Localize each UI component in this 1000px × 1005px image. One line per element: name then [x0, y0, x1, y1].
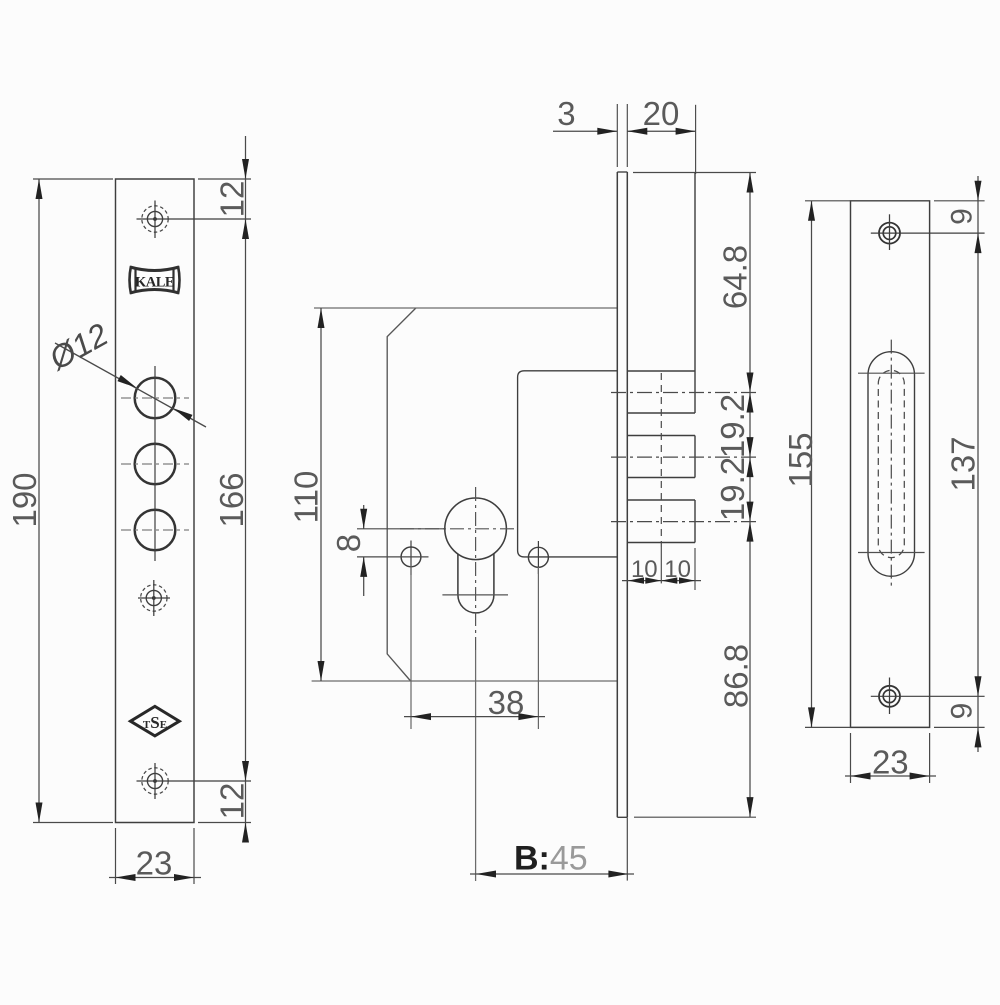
dims 10 10	[694, 548, 696, 590]
svg-text:137: 137	[945, 436, 982, 491]
svg-text:KALE: KALE	[135, 275, 174, 291]
svg-text:23: 23	[136, 845, 173, 882]
case bottom edge / ext 110	[312, 680, 618, 682]
ext	[616, 104, 618, 167]
cyl horiz centerline	[400, 528, 518, 530]
svg-text:19.2: 19.2	[714, 457, 751, 521]
faceplate side view	[616, 172, 618, 817]
svg-text:166: 166	[213, 472, 250, 527]
euro profile cylinder hole	[445, 498, 507, 560]
cyl vert centerline	[475, 487, 477, 650]
ext 38 left	[410, 566, 412, 729]
svg-text:B:45: B:45	[514, 840, 588, 878]
svg-text:190: 190	[6, 472, 43, 527]
svg-text:10: 10	[664, 556, 691, 583]
svg-text:3: 3	[557, 95, 575, 132]
svg-text:9: 9	[946, 208, 979, 225]
right fixing hole	[528, 547, 548, 567]
bolt 3	[627, 499, 695, 501]
dim8 ref top	[357, 528, 445, 530]
ext right B45	[626, 818, 628, 881]
dim column right: 64.8,19.2,19.2,86.8	[749, 173, 751, 818]
strike plate outline	[851, 201, 930, 728]
svg-text:86.8: 86.8	[718, 644, 755, 708]
center/ext line	[871, 232, 985, 234]
middle screw hole	[141, 585, 167, 611]
faceplate outline	[116, 179, 195, 823]
ext top	[33, 178, 113, 180]
dim8 ref bottom	[357, 556, 429, 558]
horiz centerline	[121, 397, 189, 399]
svg-text:20: 20	[643, 95, 680, 132]
svg-text:155: 155	[782, 432, 819, 487]
svg-text:38: 38	[488, 684, 525, 721]
svg-text:19.2: 19.2	[714, 394, 751, 458]
svg-text:110: 110	[288, 471, 325, 524]
bolt centerlines	[660, 373, 662, 547]
ext bottom	[33, 822, 113, 824]
KALE logo	[130, 266, 180, 294]
latch slot outer	[868, 352, 915, 577]
svg-text:8: 8	[330, 534, 367, 552]
dim 23 strike	[850, 733, 852, 783]
slot upper tick	[858, 372, 925, 374]
dim 38	[404, 716, 545, 718]
slot vert centerline	[890, 340, 892, 586]
ext	[626, 104, 628, 167]
bottom ext	[634, 816, 756, 818]
ext	[805, 726, 851, 728]
inner case profile	[518, 371, 618, 557]
latch slot inner dashed	[878, 370, 904, 557]
bolt housing top edge	[633, 172, 756, 174]
ext top	[934, 200, 985, 202]
svg-text:10: 10	[631, 556, 658, 583]
bolt 2	[627, 435, 695, 437]
right edge top block+bolt1	[694, 173, 696, 414]
center/ext line of top hole	[137, 218, 252, 220]
ext 822	[198, 822, 251, 824]
case top edge / ext 110	[314, 307, 617, 309]
slot lower tick	[858, 552, 925, 554]
dim 23 bottom left view	[115, 828, 117, 884]
horiz centerline	[121, 463, 189, 465]
three deadbolt holes Ø12	[135, 378, 176, 419]
ext	[695, 105, 697, 174]
vertical centerline of big holes	[154, 366, 156, 561]
dim 110	[320, 308, 322, 681]
svg-text:12: 12	[214, 181, 251, 218]
ext bottom	[934, 726, 985, 728]
bolt 1	[627, 370, 695, 372]
svg-text:64.8: 64.8	[717, 245, 754, 309]
ext	[805, 200, 851, 202]
strike top screw hole	[879, 223, 900, 244]
cyl centerline ext to B45	[475, 650, 477, 881]
left fixing hole	[401, 547, 421, 567]
strike bottom screw hole	[879, 686, 900, 707]
case body left outline	[387, 308, 416, 681]
ext 38 right	[537, 567, 539, 729]
center/ext line bottom hole	[137, 780, 252, 782]
svg-text:9: 9	[946, 703, 979, 720]
ext 179	[198, 178, 251, 180]
dim 8	[363, 505, 365, 529]
svg-text:12: 12	[214, 783, 251, 820]
top screw hole	[142, 206, 168, 232]
Ø12 leader	[55, 343, 206, 427]
svg-text:23: 23	[872, 744, 909, 781]
cyl lower tick	[442, 594, 508, 596]
horiz centerline	[121, 529, 189, 531]
bottom screw hole	[142, 768, 168, 794]
TSE logo	[131, 706, 180, 736]
center/ext line	[871, 695, 985, 697]
